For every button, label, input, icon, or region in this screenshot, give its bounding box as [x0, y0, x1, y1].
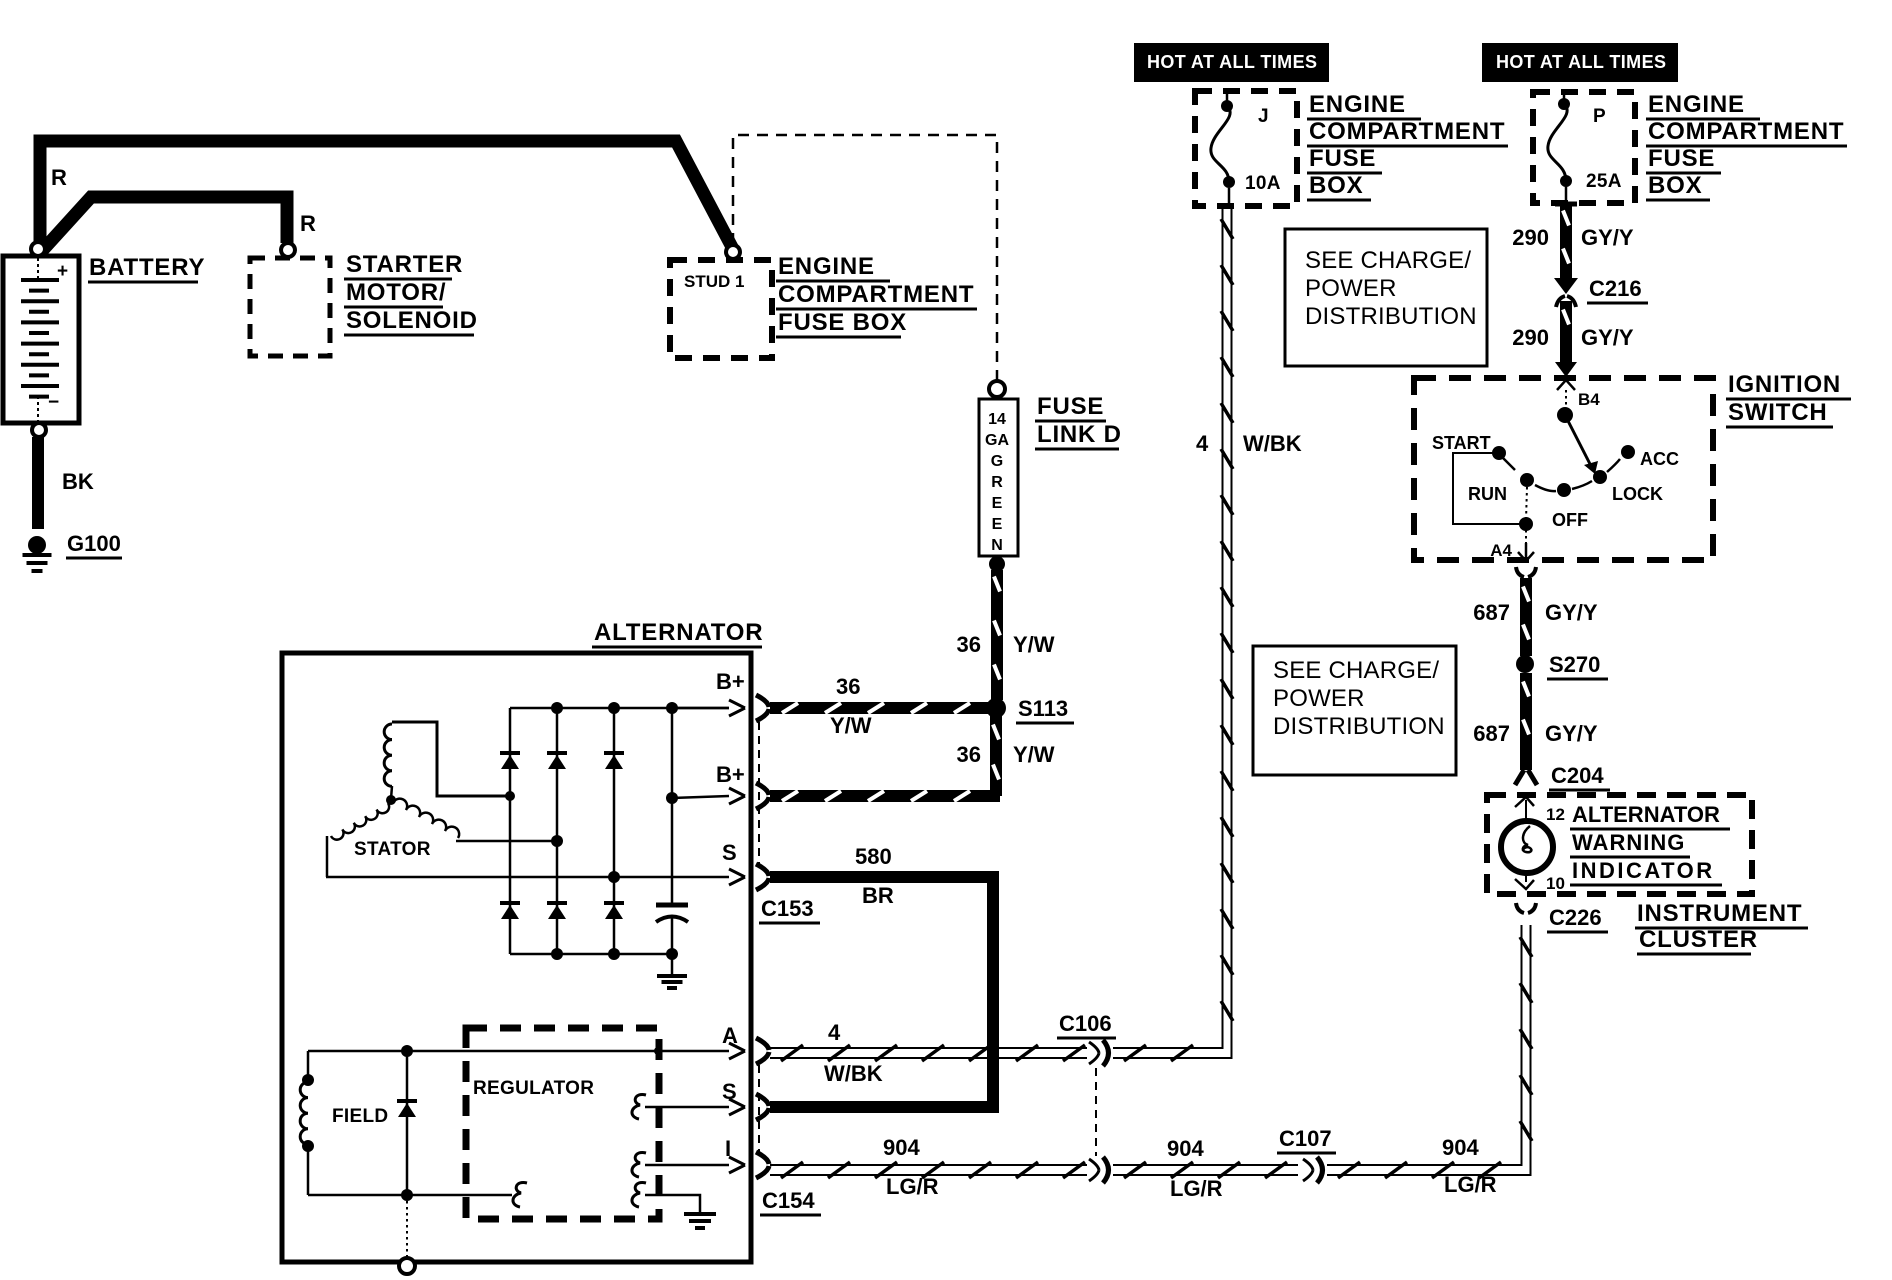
- field winding: [300, 1051, 388, 1195]
- wire 36 Y/W fuse link to S113: [957, 570, 1055, 700]
- alternator case terminal: [399, 1201, 415, 1274]
- svg-text:ENGINE: ENGINE: [778, 253, 875, 280]
- wire 290 GY/Y fuse P to C216: [1512, 204, 1634, 278]
- connector C106 second cavity: [1089, 1157, 1109, 1183]
- svg-text:Y/W: Y/W: [1013, 632, 1055, 657]
- label STATOR: [354, 839, 431, 860]
- svg-text:C107: C107: [1279, 1126, 1332, 1151]
- svg-text:SWITCH: SWITCH: [1728, 399, 1827, 426]
- field bottom wire to regulator: [308, 1182, 527, 1207]
- svg-text:C154: C154: [762, 1188, 815, 1213]
- ignition pin B4: [1557, 380, 1600, 409]
- label INSTRUMENT CLUSTER: [1635, 900, 1808, 954]
- connector C204: [1515, 763, 1610, 790]
- svg-text:WARNING: WARNING: [1572, 830, 1685, 855]
- svg-text:COMPARTMENT: COMPARTMENT: [778, 281, 974, 308]
- svg-text:CLUSTER: CLUSTER: [1639, 926, 1758, 953]
- svg-text:Y/W: Y/W: [1013, 742, 1055, 767]
- svg-text:R: R: [300, 211, 316, 236]
- rectifier diode column 1: [500, 708, 520, 954]
- indicator pin 12: [1515, 797, 1565, 824]
- svg-text:BR: BR: [862, 883, 894, 908]
- starter motor/solenoid box: [250, 258, 330, 356]
- svg-text:S: S: [722, 840, 737, 865]
- svg-text:904: 904: [883, 1135, 920, 1160]
- svg-text:W/BK: W/BK: [1243, 431, 1302, 456]
- svg-text:687: 687: [1473, 721, 1510, 746]
- ignition switch box: [1414, 378, 1713, 560]
- svg-text:C204: C204: [1551, 763, 1604, 788]
- fuse link D body 14 GA GREEN: [979, 399, 1018, 556]
- splice S113: [986, 696, 1074, 723]
- capacitor column: [666, 708, 678, 954]
- ignition pin A4: [1490, 541, 1534, 561]
- wire BK battery negative to ground G100: [38, 437, 94, 529]
- svg-text:GY/Y: GY/Y: [1545, 721, 1598, 746]
- wire 4 W/BK C106 to fuse J: [1113, 207, 1302, 1061]
- stator winding 2 (left diagonal coil): [327, 803, 389, 877]
- rectifier bottom rail: [510, 948, 678, 960]
- svg-text:Y/W: Y/W: [830, 713, 872, 738]
- hot at all times banner (fuse P): [1482, 43, 1678, 82]
- svg-text:B4: B4: [1578, 390, 1600, 409]
- svg-text:W/BK: W/BK: [824, 1061, 883, 1086]
- warning lamp: [1501, 821, 1553, 882]
- stud 1 terminal: [726, 245, 740, 259]
- svg-text:POWER: POWER: [1305, 275, 1397, 302]
- wire 904 LG/R C106 to C107: [1113, 1136, 1298, 1201]
- svg-text:START: START: [1432, 433, 1491, 453]
- connector C107: [1277, 1126, 1336, 1183]
- svg-text:290: 290: [1512, 325, 1549, 350]
- svg-text:FUSE: FUSE: [1309, 145, 1376, 172]
- svg-text:C153: C153: [761, 896, 814, 921]
- connector C154: [756, 1038, 821, 1215]
- alternator box: [282, 653, 751, 1262]
- label IGNITION SWITCH: [1726, 371, 1851, 427]
- svg-text:BOX: BOX: [1309, 172, 1363, 199]
- svg-text:LG/R: LG/R: [1170, 1176, 1223, 1201]
- svg-text:580: 580: [855, 844, 892, 869]
- svg-text:904: 904: [1167, 1136, 1204, 1161]
- svg-text:REGULATOR: REGULATOR: [473, 1078, 594, 1099]
- svg-text:HOT AT ALL TIMES: HOT AT ALL TIMES: [1147, 52, 1317, 72]
- svg-text:RUN: RUN: [1468, 484, 1507, 504]
- svg-text:MOTOR/: MOTOR/: [346, 279, 446, 306]
- ignition mechanical link: [1453, 453, 1533, 543]
- svg-text:C106: C106: [1059, 1011, 1112, 1036]
- battery negative terminal: [32, 423, 46, 437]
- label ALTERNATOR WARNING INDICATOR: [1570, 802, 1730, 885]
- starter solenoid terminal: [281, 243, 295, 257]
- svg-text:I: I: [725, 1136, 731, 1161]
- svg-text:IGNITION: IGNITION: [1728, 371, 1841, 398]
- indicator pin 10: [1515, 874, 1565, 893]
- rectifier diode column 2: [547, 708, 567, 954]
- ignition contact START: [1432, 433, 1515, 470]
- svg-text:POWER: POWER: [1273, 685, 1365, 712]
- ignition contact LOCK: [1593, 459, 1663, 504]
- svg-text:P: P: [1593, 106, 1606, 127]
- stator winding 1 (vertical coil): [384, 722, 506, 799]
- svg-text:HOT AT ALL TIMES: HOT AT ALL TIMES: [1496, 52, 1666, 72]
- svg-text:STUD 1: STUD 1: [684, 272, 744, 291]
- svg-text:25A: 25A: [1586, 171, 1622, 192]
- svg-text:4: 4: [1196, 431, 1209, 456]
- svg-text:B+: B+: [716, 669, 745, 694]
- svg-text:FUSE: FUSE: [1037, 393, 1104, 420]
- svg-text:LG/R: LG/R: [886, 1174, 939, 1199]
- svg-text:36: 36: [957, 742, 981, 767]
- wire 290 GY/Y C216 to ignition switch B4: [1512, 301, 1634, 377]
- wire 904 LG/R C107 to instrument cluster: [1327, 925, 1532, 1197]
- fuse J box: [1195, 91, 1297, 206]
- svg-text:C216: C216: [1589, 276, 1642, 301]
- svg-text:ALTERNATOR: ALTERNATOR: [594, 619, 763, 646]
- wire R battery positive to engine compartment fuse box: [40, 141, 733, 250]
- label ENGINE COMPARTMENT FUSE BOX (fuse P): [1646, 91, 1847, 200]
- svg-text:B+: B+: [716, 762, 745, 787]
- svg-text:SEE CHARGE/: SEE CHARGE/: [1305, 247, 1471, 274]
- svg-text:36: 36: [957, 632, 981, 657]
- svg-text:−: −: [48, 392, 59, 413]
- hot at all times banner (fuse J): [1134, 43, 1329, 82]
- label STARTER MOTOR/SOLENOID: [344, 251, 478, 335]
- svg-text:SEE CHARGE/: SEE CHARGE/: [1273, 657, 1439, 684]
- svg-text:DISTRIBUTION: DISTRIBUTION: [1273, 713, 1445, 740]
- svg-text:14: 14: [988, 411, 1006, 428]
- wire 4 W/BK field A to C106: [770, 1020, 1087, 1086]
- svg-text:OFF: OFF: [1552, 510, 1588, 530]
- connector C226: [1516, 903, 1608, 932]
- splice S270: [1516, 652, 1608, 679]
- svg-text:ACC: ACC: [1640, 449, 1679, 469]
- svg-text:INDICATOR: INDICATOR: [1572, 858, 1715, 883]
- stator centre junction: [386, 795, 396, 805]
- connector C216: [1554, 276, 1648, 307]
- svg-text:R: R: [991, 474, 1003, 491]
- ground G100: [23, 531, 123, 571]
- field diode: [397, 1045, 417, 1201]
- svg-text:R: R: [51, 165, 67, 190]
- svg-text:DISTRIBUTION: DISTRIBUTION: [1305, 303, 1477, 330]
- svg-text:FUSE BOX: FUSE BOX: [778, 309, 907, 336]
- svg-text:ENGINE: ENGINE: [1309, 91, 1406, 118]
- output S regulator pin: [632, 1079, 745, 1119]
- svg-text:STATOR: STATOR: [354, 839, 431, 860]
- output S stator pin: [326, 840, 745, 885]
- label FUSE LINK D: [1035, 393, 1122, 449]
- svg-text:S: S: [722, 1079, 737, 1104]
- svg-text:GY/Y: GY/Y: [1581, 225, 1634, 250]
- label BATTERY: [88, 254, 205, 282]
- fuse P box: [1533, 92, 1635, 203]
- svg-text:J: J: [1258, 106, 1269, 127]
- wire 687 GY/Y ignition A4 to S270: [1473, 567, 1598, 656]
- svg-text:10A: 10A: [1245, 173, 1281, 194]
- svg-text:12: 12: [1546, 805, 1565, 824]
- svg-text:G: G: [991, 453, 1003, 470]
- svg-text:SOLENOID: SOLENOID: [346, 307, 478, 334]
- svg-text:ALTERNATOR: ALTERNATOR: [1572, 802, 1720, 827]
- battery positive terminal: [31, 242, 45, 256]
- svg-text:LG/R: LG/R: [1444, 1172, 1497, 1197]
- label ENGINE COMPARTMENT FUSE BOX (stud 1): [776, 253, 977, 337]
- svg-text:LINK D: LINK D: [1037, 421, 1122, 448]
- svg-text:GY/Y: GY/Y: [1581, 325, 1634, 350]
- stator winding 3 (right diagonal coil): [393, 799, 563, 847]
- svg-text:E: E: [992, 495, 1003, 512]
- svg-text:BATTERY: BATTERY: [89, 254, 205, 281]
- svg-text:STARTER: STARTER: [346, 251, 463, 278]
- svg-text:ENGINE: ENGINE: [1648, 91, 1745, 118]
- svg-text:FIELD: FIELD: [332, 1106, 388, 1127]
- battery: [3, 256, 79, 423]
- capacitor C: [656, 905, 688, 922]
- svg-text:BK: BK: [62, 469, 94, 494]
- ignition wiper: [1557, 407, 1598, 474]
- svg-text:GY/Y: GY/Y: [1545, 600, 1598, 625]
- output B+ pin 2: [672, 762, 745, 804]
- dashed wire stud1 to fuse link D: [733, 135, 997, 380]
- ignition contact OFF: [1535, 481, 1592, 530]
- alternator warning indicator box: [1487, 795, 1752, 894]
- label ALTERNATOR: [592, 619, 763, 647]
- svg-text:687: 687: [1473, 600, 1510, 625]
- svg-text:10: 10: [1546, 874, 1565, 893]
- svg-text:BOX: BOX: [1648, 172, 1702, 199]
- svg-text:A: A: [722, 1023, 738, 1048]
- label ENGINE COMPARTMENT FUSE BOX (fuse J): [1307, 91, 1508, 200]
- see charge/power distribution note (upper): [1285, 229, 1487, 366]
- svg-text:S113: S113: [1018, 696, 1068, 721]
- connector C106: [1057, 1011, 1116, 1156]
- svg-text:4: 4: [828, 1020, 841, 1045]
- fuse link D terminal: [989, 381, 1005, 397]
- svg-text:FUSE: FUSE: [1648, 145, 1715, 172]
- wire 36 Y/W S113 to B+ second: [770, 716, 1055, 801]
- svg-text:LOCK: LOCK: [1612, 484, 1663, 504]
- regulator internal ground: [632, 1182, 716, 1228]
- svg-text:C226: C226: [1549, 905, 1602, 930]
- fuse link D lower terminal: [989, 556, 1005, 572]
- regulator box: [466, 1028, 659, 1219]
- svg-text:N: N: [991, 537, 1003, 554]
- connector C153: [756, 695, 820, 923]
- svg-text:A4: A4: [1490, 541, 1512, 560]
- output I regulator pin: [632, 1136, 745, 1177]
- wire 687 GY/Y S270 to C204: [1473, 673, 1598, 770]
- ignition contact RUN: [1468, 473, 1534, 504]
- wire R battery positive to starter motor/solenoid: [41, 197, 316, 252]
- wire 36 Y/W B+ to S113: [770, 674, 988, 738]
- ignition contact ACC: [1621, 445, 1679, 469]
- stud 1 box engine compartment fuse box: [670, 260, 772, 358]
- svg-text:COMPARTMENT: COMPARTMENT: [1309, 118, 1505, 145]
- svg-text:S270: S270: [1549, 652, 1600, 677]
- rectifier ground: [657, 954, 687, 988]
- output B+ pin 1: [672, 669, 745, 716]
- wire 904 LG/R regulator I to C106: [770, 1135, 1087, 1199]
- svg-text:INSTRUMENT: INSTRUMENT: [1637, 900, 1802, 927]
- svg-text:904: 904: [1442, 1135, 1479, 1160]
- rectifier top rail B+: [510, 702, 729, 714]
- svg-text:COMPARTMENT: COMPARTMENT: [1648, 118, 1844, 145]
- svg-text:290: 290: [1512, 225, 1549, 250]
- svg-text:G100: G100: [67, 531, 121, 556]
- see charge/power distribution note (lower): [1253, 646, 1456, 775]
- svg-text:E: E: [992, 516, 1003, 533]
- svg-text:GA: GA: [985, 432, 1009, 449]
- rectifier diode column 3: [604, 708, 624, 954]
- wire 580 BR stator S to regulator S: [770, 844, 993, 1107]
- output A field pin: [308, 1023, 745, 1059]
- svg-text:36: 36: [836, 674, 860, 699]
